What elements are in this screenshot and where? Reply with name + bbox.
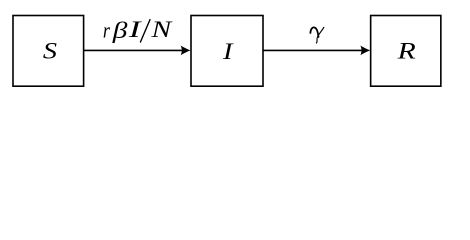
svg-text:r: r: [103, 19, 110, 43]
compartment box R: [371, 16, 441, 87]
label glyph beta: [112, 17, 129, 44]
svg-text:β: β: [112, 17, 129, 44]
compartment box I: [191, 16, 263, 87]
svg-text:R: R: [397, 38, 416, 64]
svg-text:I: I: [128, 17, 142, 42]
label glyph I: [128, 17, 142, 42]
label glyph r: [103, 19, 110, 43]
label R (recovered): [397, 38, 416, 64]
label S (susceptible): [43, 38, 57, 64]
svg-text:I: I: [222, 38, 234, 64]
svg-text:S: S: [43, 38, 57, 64]
arrow S to I (infection transition): [84, 46, 191, 56]
label I (infected): [222, 38, 234, 64]
label gamma (recovery rate): [310, 27, 323, 43]
compartment box S: [13, 16, 84, 87]
arrow I to R (recovery transition): [263, 46, 370, 56]
slash of rate label r*beta*I/N: [140, 20, 150, 42]
svg-text:N: N: [150, 16, 172, 42]
label glyph N: [150, 16, 172, 42]
